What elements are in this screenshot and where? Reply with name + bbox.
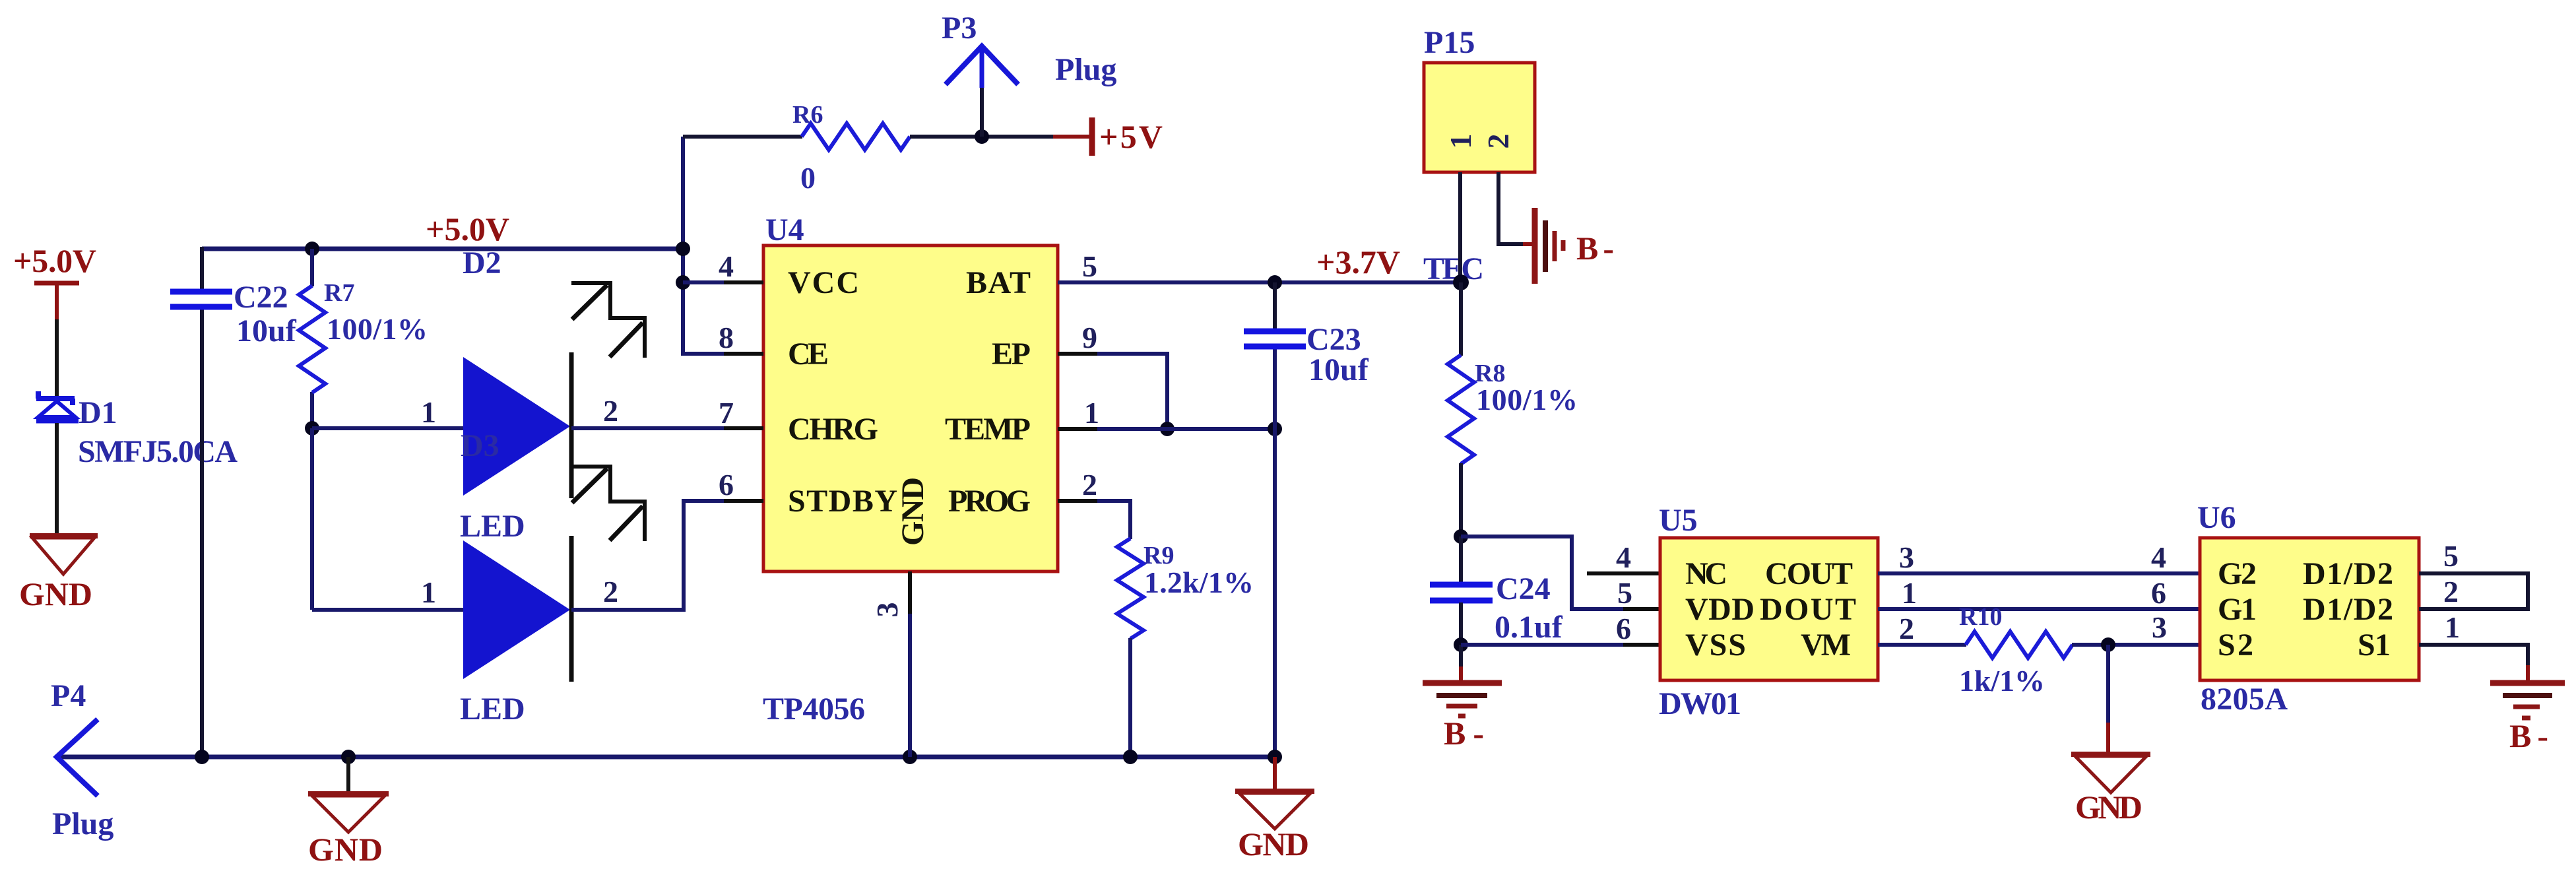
wire C23 vertical [1273, 282, 1277, 329]
wire top rail +5.0V [202, 247, 683, 251]
svg-text:R6: R6 [792, 101, 823, 129]
node U4 GND on rail [903, 750, 917, 764]
svg-text:D3: D3 [461, 428, 499, 463]
wire R6 left [683, 135, 802, 139]
svg-text:+5.0V: +5.0V [426, 211, 509, 247]
svg-text:3: 3 [2152, 610, 2167, 644]
wire BAT net [1058, 280, 1461, 284]
svg-text:D1/D2: D1/D2 [2303, 556, 2393, 591]
ground GND (right) [2071, 754, 2150, 793]
svg-text:6: 6 [2151, 576, 2166, 610]
svg-text:2: 2 [2443, 575, 2459, 608]
node rail x riser [676, 242, 690, 256]
capacitor C22 [170, 292, 232, 307]
svg-text:NC: NC [1685, 556, 1727, 591]
svg-text:U4: U4 [765, 212, 804, 247]
svg-text:P4: P4 [51, 678, 86, 713]
node R7 bottom / LED tap [305, 421, 319, 436]
wire C24 bottom lead [1459, 602, 1463, 645]
wire EP to TEMP [1097, 354, 1167, 429]
svg-text:8: 8 [719, 321, 734, 354]
wire P15 pin2 [1498, 172, 1524, 244]
svg-text:7: 7 [719, 396, 734, 430]
svg-text:B-: B- [1576, 230, 1614, 267]
node TEC [1453, 275, 1469, 290]
wire TEC to R8 [1459, 282, 1463, 356]
wire DOUT to G1 [1878, 607, 2200, 611]
svg-text:VSS: VSS [1685, 628, 1746, 663]
resistor R8 [1448, 355, 1474, 464]
svg-text:B-: B- [1444, 715, 1484, 752]
node P3 tap [975, 129, 989, 144]
svg-text:SMFJ5.0CA: SMFJ5.0CA [78, 434, 238, 469]
capacitor C23 [1244, 331, 1306, 346]
wire R9 bottom [1128, 638, 1132, 757]
svg-text:COUT: COUT [1765, 556, 1853, 591]
LED D3 cathode bar [569, 352, 574, 498]
svg-text:1.2k/1%: 1.2k/1% [1144, 566, 1254, 599]
svg-text:6: 6 [1616, 612, 1631, 645]
node C24 top [1454, 529, 1468, 544]
wire TEMP net [1097, 427, 1275, 431]
wire C23 GND stub [1273, 757, 1277, 790]
pin 3 stub bottom [908, 571, 912, 617]
node EP/TEMP [1160, 422, 1175, 436]
svg-text:+5.0V: +5.0V [13, 242, 96, 279]
node C22 on rail [195, 750, 209, 764]
svg-text:100/1%: 100/1% [327, 312, 428, 346]
svg-text:Plug: Plug [1055, 52, 1116, 87]
pin stub overdraws U5/U6 [1623, 573, 2200, 645]
wire GND mid stub [346, 757, 350, 793]
wire R8 bottom [1459, 463, 1463, 536]
svg-text:C24: C24 [1496, 571, 1551, 606]
svg-text:CE: CE [788, 337, 829, 372]
wire R7 leads [310, 249, 314, 286]
wire to LED2 anode [312, 608, 464, 612]
svg-text:B-: B- [2509, 717, 2548, 754]
resistor R7 [299, 286, 325, 393]
wire VM to R10 [1878, 643, 1966, 647]
svg-text:R7: R7 [324, 279, 354, 307]
svg-text:P15: P15 [1424, 25, 1475, 60]
svg-text:U6: U6 [2197, 500, 2236, 535]
wire LED2 cathode to STDBY [571, 501, 763, 610]
svg-text:6: 6 [719, 468, 734, 502]
svg-text:1: 1 [1444, 134, 1477, 149]
wire +5.0V to D1 [55, 319, 59, 397]
wire D1 to GND [55, 423, 59, 535]
svg-text:STDBY: STDBY [788, 484, 897, 519]
wire pin5 loop [2419, 573, 2528, 609]
svg-text:GND: GND [1238, 826, 1309, 862]
resistor R6 [802, 123, 910, 150]
ground GND (under C23) [1235, 791, 1314, 829]
capacitor C24 [1430, 585, 1493, 601]
svg-text:D1/D2: D1/D2 [2303, 592, 2393, 627]
svg-text:4: 4 [2151, 540, 2166, 574]
svg-text:4: 4 [1616, 540, 1631, 574]
svg-text:4: 4 [719, 249, 734, 283]
svg-text:0.1uf: 0.1uf [1495, 610, 1563, 645]
svg-text:1: 1 [1902, 576, 1917, 610]
svg-text:1: 1 [421, 395, 436, 429]
wire LED1 cathode to CHRG [571, 426, 763, 430]
op-amp U4 body [763, 245, 1058, 571]
wire to LED1 anode [312, 426, 464, 430]
svg-text:GND: GND [895, 477, 930, 546]
svg-text:DW01: DW01 [1659, 686, 1741, 721]
wire to B- earth [1459, 645, 1463, 668]
svg-text:5: 5 [2443, 539, 2459, 573]
LED2 arrows [571, 467, 645, 541]
wire NC stub [1587, 571, 1660, 575]
svg-text:P3: P3 [942, 11, 977, 46]
svg-text:1: 1 [421, 575, 436, 609]
svg-text:8205A: 8205A [2201, 682, 2288, 717]
svg-text:C22: C22 [234, 280, 288, 315]
power +5.0V (left) [13, 242, 96, 321]
wire C22 vertical [200, 247, 204, 290]
svg-text:3: 3 [1899, 540, 1914, 574]
svg-text:U5: U5 [1659, 503, 1698, 538]
svg-text:CHRG: CHRG [788, 412, 878, 447]
LED2 cathode bar [569, 536, 574, 682]
wire GND stub (right) [2106, 645, 2110, 724]
svg-text:GND: GND [308, 831, 383, 868]
wire COUT to G2 [1878, 571, 2200, 575]
svg-text:VM: VM [1801, 628, 1851, 663]
wire U4 GND [908, 614, 912, 757]
wire R10 to S2 [2072, 643, 2200, 647]
svg-text:LED: LED [460, 509, 525, 544]
svg-text:S1: S1 [2358, 628, 2391, 663]
svg-text:R10: R10 [1959, 603, 2002, 631]
svg-text:EP: EP [992, 337, 1031, 372]
wire C24 top lead [1459, 536, 1463, 583]
connector P3 plug arrow [946, 46, 1018, 84]
power B- battery (right of P15) [1535, 208, 1563, 284]
wire P3 stub [980, 49, 984, 88]
resistor R10 [1966, 632, 2073, 658]
svg-text:TEMP: TEMP [945, 412, 1031, 447]
node VSS tap [1454, 637, 1468, 652]
wire PROG to R9 [1097, 501, 1130, 539]
svg-text:+5V: +5V [1099, 118, 1163, 155]
power B- earth (under C24) [1423, 683, 1502, 716]
svg-text:G1: G1 [2218, 592, 2257, 627]
svg-text:9: 9 [1082, 321, 1097, 354]
wire P15 pin1 [1458, 172, 1462, 282]
svg-text:Plug: Plug [52, 806, 113, 841]
pin stubs left [724, 282, 763, 501]
svg-text:GND: GND [2075, 789, 2142, 826]
wire S1 to B- [2419, 645, 2528, 666]
svg-text:2: 2 [1082, 468, 1097, 502]
svg-text:10uf: 10uf [1308, 352, 1369, 387]
LED2 triangle [463, 540, 570, 679]
svg-text:1: 1 [1084, 396, 1099, 430]
svg-text:+3.7V: +3.7V [1316, 244, 1400, 280]
svg-text:D1: D1 [79, 395, 117, 430]
node rail end C23 [1268, 750, 1282, 764]
svg-text:TP4056: TP4056 [763, 692, 865, 727]
svg-text:DOUT: DOUT [1760, 592, 1856, 627]
pin stubs right [1058, 282, 1097, 501]
svg-text:VCC: VCC [788, 265, 859, 300]
svg-text:2: 2 [1899, 612, 1914, 645]
connector P15 [1424, 63, 1535, 172]
node VCC tap [676, 275, 690, 290]
power B- earth (bottom right) [2490, 683, 2565, 718]
resistor R9 [1117, 538, 1143, 639]
svg-text:1: 1 [2445, 610, 2460, 644]
svg-text:BAT: BAT [966, 265, 1031, 300]
svg-text:2: 2 [603, 394, 618, 428]
svg-text:PROG: PROG [948, 484, 1031, 519]
power +5V [1053, 117, 1163, 156]
svg-text:2: 2 [1481, 134, 1515, 149]
LED D3 triangle [463, 357, 570, 496]
svg-text:3: 3 [870, 602, 904, 618]
svg-text:5: 5 [1617, 576, 1632, 610]
svg-text:LED: LED [460, 692, 525, 727]
LED D3 arrows [571, 283, 645, 358]
node R7 top [305, 242, 319, 256]
svg-text:1k/1%: 1k/1% [1959, 664, 2045, 698]
svg-text:VDD: VDD [1685, 592, 1755, 627]
node GND mid tap [341, 750, 356, 764]
wire CE riser [683, 137, 763, 354]
wire VDD feed [1461, 536, 1660, 609]
connector P4 plug arrow [57, 719, 98, 796]
diode D1 (TVS) [36, 391, 79, 420]
ground GND (under D1) [30, 536, 98, 574]
node C23 top [1268, 275, 1282, 290]
svg-text:D2: D2 [463, 245, 501, 280]
svg-text:G2: G2 [2218, 556, 2257, 591]
wire VSS feed [1461, 643, 1660, 647]
node S2 / GND tap [2101, 637, 2115, 652]
svg-text:GND: GND [19, 575, 92, 612]
svg-text:10uf: 10uf [236, 313, 297, 348]
node R9 on rail [1123, 750, 1138, 764]
svg-text:2: 2 [603, 575, 618, 608]
wire R6 right [910, 135, 1056, 139]
svg-text:0: 0 [800, 161, 816, 195]
wire VCC tap [683, 280, 763, 284]
wire down to LED2 [310, 428, 314, 610]
ground GND (middle) [308, 794, 389, 832]
svg-text:100/1%: 100/1% [1476, 383, 1578, 416]
node C23 mid [1268, 422, 1282, 436]
wire GND rail [57, 755, 1275, 760]
svg-text:5: 5 [1082, 249, 1097, 283]
